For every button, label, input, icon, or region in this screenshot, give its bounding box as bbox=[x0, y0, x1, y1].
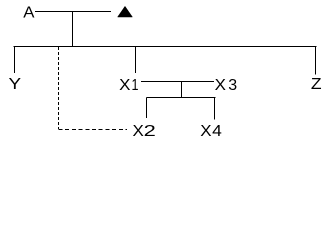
svg-text:4: 4 bbox=[212, 123, 222, 140]
svg-text:3: 3 bbox=[228, 77, 237, 94]
svg-text:X: X bbox=[133, 123, 145, 140]
svg-text:A: A bbox=[23, 5, 35, 22]
svg-text:2: 2 bbox=[144, 123, 156, 140]
svg-text:Y: Y bbox=[9, 76, 22, 93]
svg-text:X: X bbox=[200, 123, 212, 140]
svg-text:X: X bbox=[119, 77, 131, 94]
svg-text:X: X bbox=[215, 77, 227, 94]
svg-text:Z: Z bbox=[311, 76, 322, 93]
svg-text:1: 1 bbox=[132, 77, 139, 94]
